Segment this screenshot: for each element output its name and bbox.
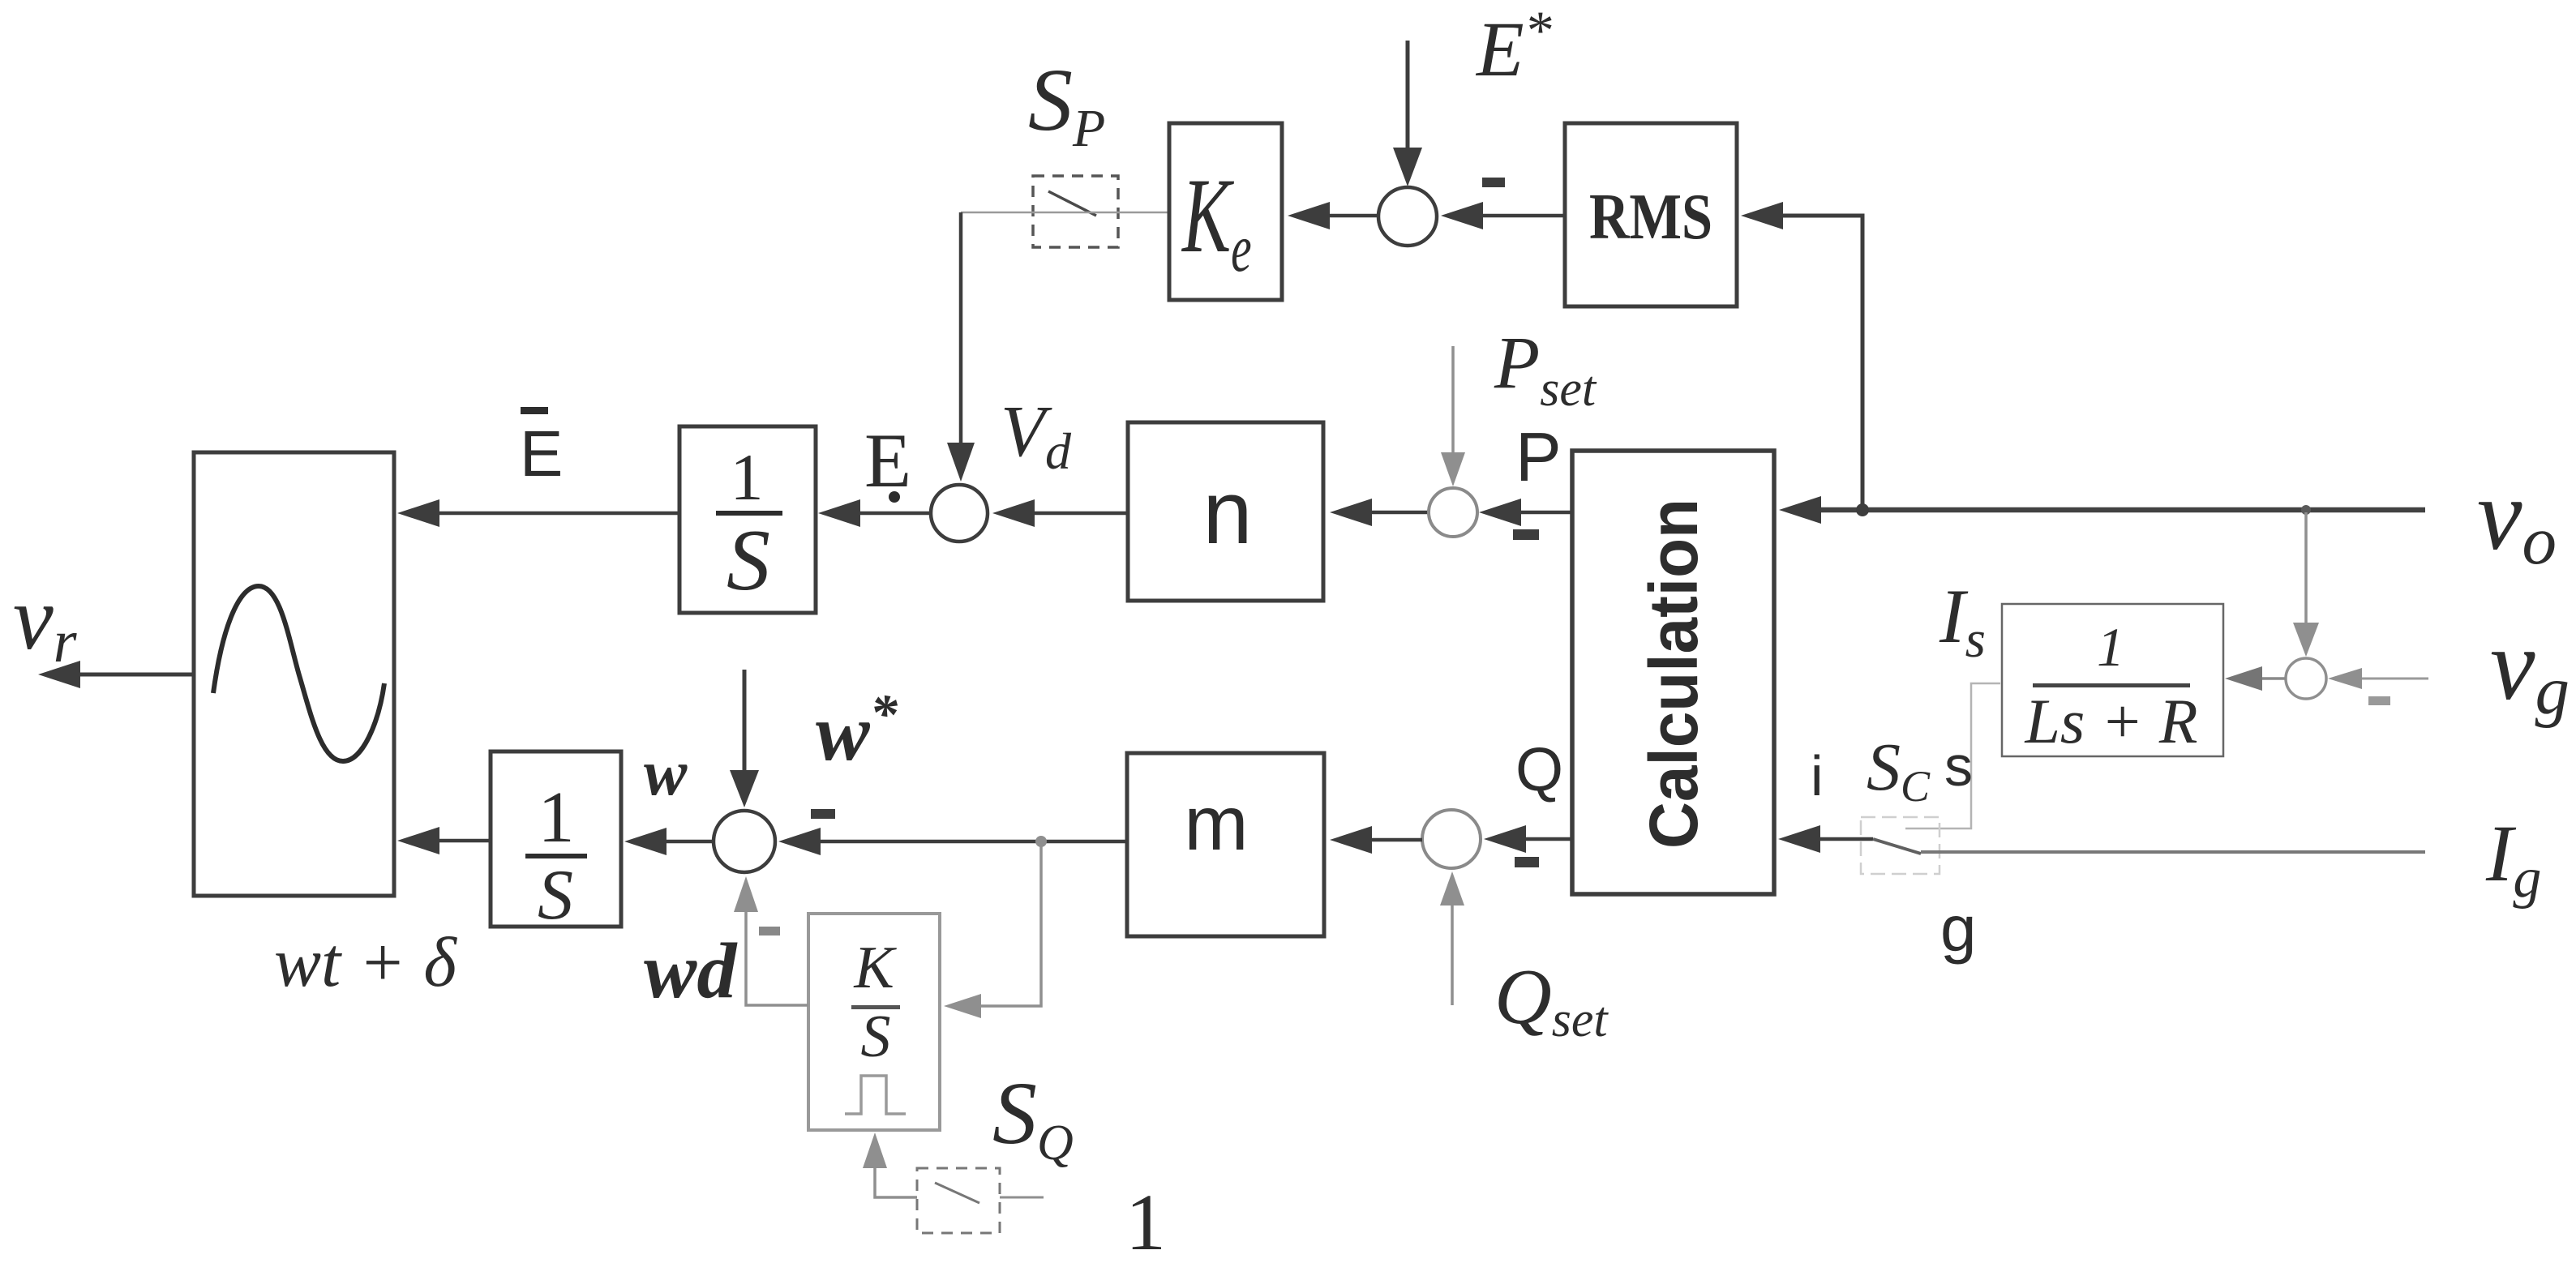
switch S_C lever — [1873, 839, 1921, 854]
switch S_P dashed box — [1033, 176, 1118, 247]
label wt+delta — [274, 923, 457, 1001]
svg-text:wd: wd — [644, 927, 738, 1015]
svg-text:E: E — [520, 417, 563, 490]
wire I_g (gray) — [1921, 850, 2425, 854]
minus sign at P sum — [1513, 529, 1539, 540]
minus sign at v_g sum — [2368, 696, 2390, 705]
minus sign at E sum — [1482, 178, 1505, 187]
label P_set — [1494, 321, 1597, 417]
wire arrow sum-E to K_e — [1288, 202, 1378, 229]
svg-text:Ls + R: Ls + R — [2024, 686, 2197, 756]
block K_e — [1169, 123, 1282, 300]
switch S_Q dashed box — [917, 1168, 1000, 1233]
wire arrow P sum to n — [1330, 499, 1429, 526]
wire arrow v_g sum to 1/(Ls+R) — [2225, 666, 2286, 691]
label S_P — [1028, 50, 1105, 158]
wire arrow Calculation to P sum — [1479, 499, 1572, 526]
svg-text:n: n — [1202, 463, 1252, 563]
node on v_o wire to RMS — [1856, 503, 1869, 516]
svg-text:s: s — [1944, 734, 1973, 798]
wire arrow n to V_d sum — [992, 499, 1128, 527]
wire from S_Q to 1 (gray) — [1000, 1197, 1044, 1199]
svg-text:1: 1 — [1125, 1177, 1166, 1263]
label i — [1811, 744, 1824, 807]
svg-text:S: S — [861, 1004, 891, 1070]
svg-text:1: 1 — [731, 440, 764, 514]
block Calculation — [1572, 451, 1774, 894]
wire I_s to switch contact s (light gray) — [1905, 683, 2000, 828]
wire arrow Q sum to m — [1330, 826, 1422, 854]
faint box around switch S_C — [1861, 817, 1940, 874]
label Q_set — [1494, 953, 1609, 1047]
wire m to w sum — [778, 828, 1127, 855]
minus sign at w sum (right) — [811, 809, 835, 819]
label I_s — [1939, 573, 1986, 669]
svg-text:1: 1 — [2097, 616, 2124, 678]
label V_d — [1001, 392, 1072, 480]
wire from S_P node to K_e (gray) — [961, 212, 1169, 214]
label S_Q — [992, 1064, 1074, 1171]
label S_C — [1867, 730, 1931, 811]
svg-text:RMS: RMS — [1589, 182, 1712, 253]
svg-text:g: g — [1940, 893, 1977, 965]
summing junction V_d — [931, 485, 988, 542]
wire S_Q to K/S bottom (gray) — [863, 1132, 917, 1197]
wire arrow RMS to sum-E — [1441, 202, 1565, 229]
wire arrow w sum to 1/S lower — [624, 828, 714, 855]
label P — [1515, 419, 1562, 496]
minus sign at Q sum — [1515, 857, 1539, 867]
node branch to K/S — [1035, 836, 1047, 847]
label v_o — [2477, 460, 2557, 579]
svg-text:Calculation: Calculation — [1635, 499, 1712, 849]
switch S_Q lever — [935, 1183, 979, 1203]
label v_g — [2490, 610, 2570, 729]
svg-text:S: S — [727, 512, 770, 609]
svg-text:wt + δ: wt + δ — [274, 923, 457, 1001]
label g — [1940, 893, 1977, 965]
summing junction Q — [1422, 810, 1481, 868]
block 1/S upper — [679, 426, 816, 613]
wire arrow V_d sum to 1/S — [818, 499, 931, 527]
label v_r — [13, 568, 78, 675]
sine wave symbol — [213, 586, 384, 761]
summing junction v_g — [2286, 658, 2326, 699]
input arrow w* — [730, 670, 759, 807]
summing junction E — [1378, 187, 1437, 246]
node on v_o wire to v_g sum — [2301, 505, 2311, 515]
label Q — [1515, 735, 1563, 804]
svg-text:P: P — [1515, 419, 1562, 496]
wire arrow 1/S lower to sine block — [397, 827, 491, 854]
svg-text:m: m — [1184, 781, 1248, 867]
wire arrow Calculation to Q sum — [1484, 825, 1572, 853]
svg-text:1: 1 — [538, 777, 575, 858]
label wd — [644, 927, 738, 1015]
input wire v_g (gray) — [2328, 668, 2428, 689]
wire arrow 1/S to sine block (E-bar) — [397, 499, 679, 527]
svg-text:S: S — [538, 856, 573, 935]
label w — [644, 738, 688, 809]
output arrow v_r — [38, 661, 194, 688]
svg-text:Q: Q — [1515, 735, 1563, 804]
summing junction w — [714, 811, 775, 872]
label I_g — [2485, 808, 2541, 910]
block RMS — [1565, 123, 1737, 306]
minus sign at wd input — [759, 927, 780, 935]
label E-bar — [520, 407, 563, 490]
block n — [1128, 422, 1323, 601]
switch S_P lever — [1048, 191, 1096, 216]
label w* — [816, 683, 898, 777]
block 1/S lower — [491, 751, 621, 935]
svg-text:E: E — [864, 417, 911, 503]
svg-text:i: i — [1811, 744, 1824, 807]
label s — [1944, 734, 1973, 798]
input arrow Q_set (gray) — [1440, 871, 1464, 1005]
input arrow P_set (gray) — [1441, 346, 1465, 486]
block m — [1127, 753, 1324, 936]
block sine generator — [194, 452, 394, 896]
wire riser from S_P node down to V_d junction — [947, 212, 975, 482]
svg-text:w: w — [644, 738, 688, 809]
wire arrow switch to Calculation (i) — [1778, 825, 1873, 853]
label E-dot — [864, 417, 911, 503]
input arrow E* — [1393, 41, 1422, 186]
wire wd from K/S to w sum (gray) — [734, 876, 808, 1005]
wire from v_o riser into RMS — [1741, 202, 1862, 510]
wire branch down to K/S input (gray) — [944, 841, 1041, 1018]
label E* — [1475, 0, 1552, 92]
wire drop from v_o to v_g sum (gray) — [2293, 512, 2319, 657]
block K/S with pulse — [808, 914, 940, 1130]
svg-text:K: K — [853, 935, 897, 1001]
block 1/(Ls+R) — [2002, 604, 2223, 756]
label 1 — [1125, 1177, 1166, 1263]
wire v_o into Calculation — [1779, 496, 2425, 524]
summing junction P — [1429, 488, 1477, 537]
